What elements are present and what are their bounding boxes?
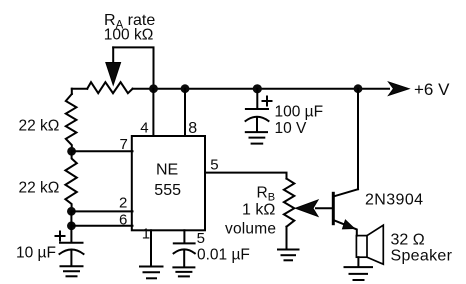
node dot C3 rail xyxy=(253,84,262,93)
svg-text:1 kΩ: 1 kΩ xyxy=(242,201,275,218)
wire pin 8 xyxy=(184,89,186,136)
wire pin 4 xyxy=(152,89,154,136)
node dot pin6 xyxy=(67,221,76,230)
svg-text:10 µF: 10 µF xyxy=(16,244,56,261)
node dot pin8 rail xyxy=(181,84,190,93)
node dot pin7 xyxy=(67,147,76,156)
node dot collector rail xyxy=(354,84,363,93)
svg-text:2N3904: 2N3904 xyxy=(365,192,423,209)
IC U1 NE555 xyxy=(132,136,205,230)
capacitor C3 plus sign xyxy=(263,97,272,106)
wire node to pin 6 xyxy=(71,211,132,225)
node dot pin4 rail xyxy=(149,84,158,93)
capacitor C1 10 µF xyxy=(60,243,84,266)
svg-text:555: 555 xyxy=(154,182,181,199)
svg-text:22 kΩ: 22 kΩ xyxy=(19,180,60,197)
capacitor C2 0.01 µF xyxy=(174,243,195,266)
potentiometer RB body 1 kΩ xyxy=(284,179,294,227)
svg-text:22 kΩ: 22 kΩ xyxy=(19,118,60,135)
svg-text:32 Ω: 32 Ω xyxy=(391,231,425,248)
svg-text:5: 5 xyxy=(197,230,205,247)
svg-text:100 µF: 100 µF xyxy=(275,104,324,121)
wire speaker to ground xyxy=(357,257,359,266)
wire main +V rail xyxy=(72,88,389,90)
resistor RA body 100 kΩ xyxy=(87,82,132,93)
ground speaker xyxy=(345,267,373,280)
ground C2 xyxy=(173,267,194,276)
svg-text:1: 1 xyxy=(142,226,150,243)
wire RB to ground xyxy=(286,227,288,248)
ground RB xyxy=(278,250,299,261)
speaker LS1 xyxy=(356,225,383,264)
svg-text:8: 8 xyxy=(188,120,197,137)
svg-text:volume: volume xyxy=(225,221,276,238)
ground pin 1 xyxy=(140,267,163,279)
wire C3 to rail xyxy=(256,89,258,109)
wire pin 5 control xyxy=(183,230,185,243)
wire node to pin 2 xyxy=(71,210,132,212)
ground C1 xyxy=(61,266,83,276)
svg-text:Speaker: Speaker xyxy=(391,247,453,264)
node dot pin2 xyxy=(67,207,76,216)
svg-text:100 kΩ: 100 kΩ xyxy=(104,27,154,44)
svg-text:0.01 µF: 0.01 µF xyxy=(197,247,250,264)
svg-text:NE: NE xyxy=(156,161,178,178)
wire pin 1 xyxy=(150,230,152,265)
resistor R2 22 kΩ xyxy=(65,151,76,211)
svg-text:2: 2 xyxy=(119,195,127,212)
wire collector to rail xyxy=(357,89,359,190)
svg-text:4: 4 xyxy=(140,120,148,137)
resistor R1 22 kΩ xyxy=(66,94,77,151)
wire node to C1 xyxy=(70,226,72,242)
wire RA wiper loop to node xyxy=(113,47,153,88)
potentiometer RB wiper arrow xyxy=(296,200,333,216)
wire rail corner into R1 xyxy=(71,89,73,94)
svg-text:6: 6 xyxy=(119,212,127,229)
wire pin 5 output to RB xyxy=(205,173,287,179)
capacitor C1 plus sign xyxy=(56,232,65,241)
capacitor C3 100 µF xyxy=(246,109,269,132)
potentiometer RA wiper arrow xyxy=(106,47,121,85)
svg-text:+6 V: +6 V xyxy=(414,80,450,99)
power arrow +6 V xyxy=(389,82,410,95)
svg-text:5: 5 xyxy=(210,156,218,173)
wire node to pin 7 xyxy=(72,150,133,152)
svg-text:7: 7 xyxy=(120,136,128,153)
transistor Q1 2N3904 xyxy=(333,189,358,235)
svg-text:10 V: 10 V xyxy=(275,120,308,137)
ground C3 xyxy=(246,132,267,144)
